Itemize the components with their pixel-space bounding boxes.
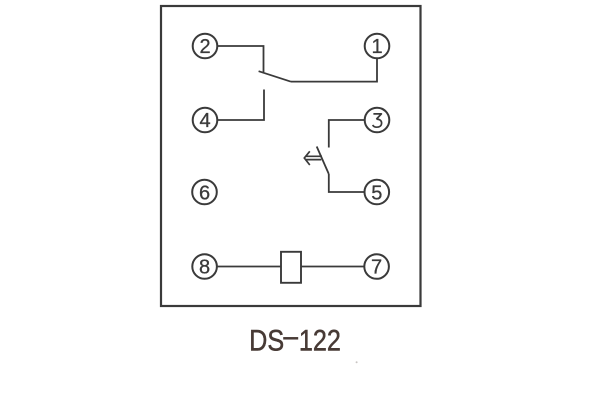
svg-text:7: 7 (371, 256, 382, 278)
relay case outline (161, 6, 421, 306)
wire from coil to terminal 7 (301, 266, 365, 268)
terminal 5 (365, 180, 390, 205)
stray speck (356, 361, 358, 363)
svg-text:6: 6 (199, 182, 210, 204)
wire from blade to terminal 5 (329, 174, 365, 192)
wire from terminal 3 to fixed contact (329, 120, 365, 148)
svg-text:1: 1 (371, 36, 382, 58)
wire from blade to terminal 1 (291, 59, 377, 82)
svg-text:8: 8 (199, 256, 210, 278)
svg-text:5: 5 (371, 182, 382, 204)
svg-text:4: 4 (199, 110, 210, 132)
terminal 3 (365, 108, 390, 133)
coil of relay DS-122 (281, 252, 301, 283)
svg-text:2: 2 (199, 36, 210, 58)
terminal 2 (193, 34, 218, 59)
contact blade 2-1 (normally closed) (259, 71, 291, 82)
terminal 7 (364, 254, 389, 279)
terminal 8 (192, 254, 217, 279)
model label DS-122 (249, 323, 341, 357)
terminal 1 (365, 34, 390, 59)
terminal 4 (193, 108, 218, 133)
wire from terminal 8 to coil (217, 266, 281, 268)
terminal 6 (192, 180, 217, 205)
wire from terminal 2 to contact pivot (218, 46, 264, 72)
actuator arrow on contact 3-5 (304, 151, 322, 165)
contact blade 3-5 (normally open) (317, 147, 329, 175)
wire from open contact to terminal 4 (218, 90, 265, 121)
